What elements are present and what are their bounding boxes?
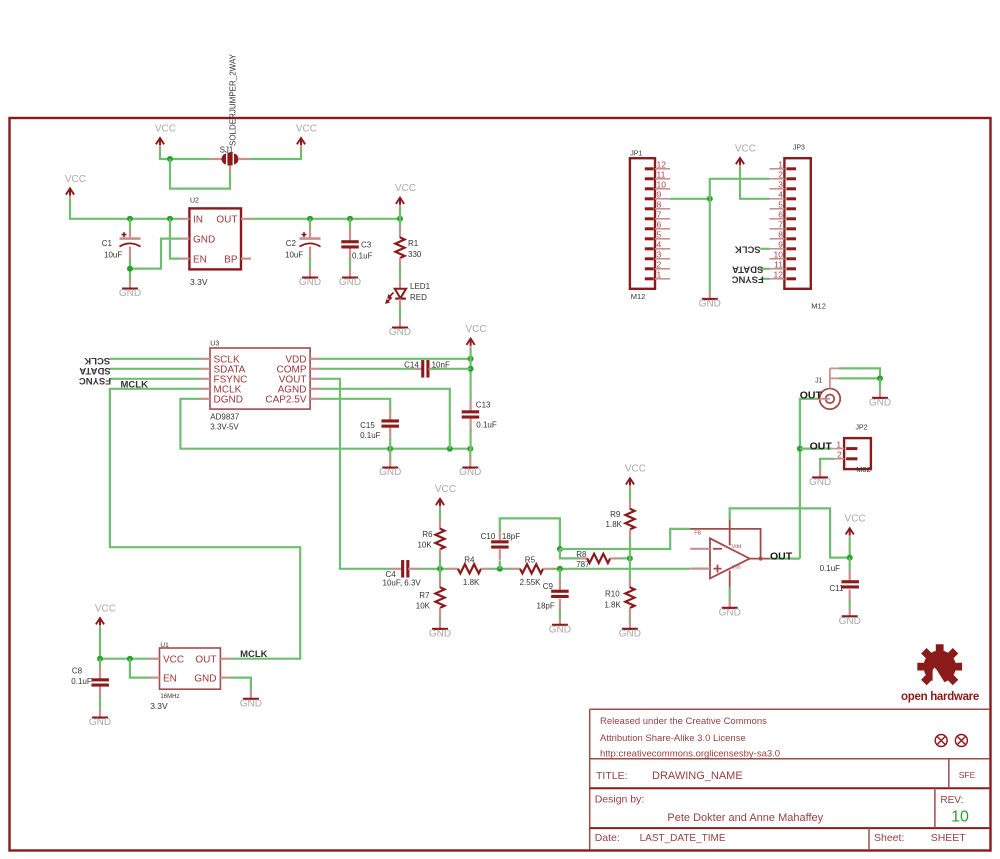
svg-text:C1: C1 bbox=[102, 239, 113, 248]
svg-text:JP1: JP1 bbox=[630, 151, 642, 158]
svg-text:VCC: VCC bbox=[845, 514, 866, 525]
date row bbox=[595, 832, 967, 844]
svg-text:GND: GND bbox=[429, 629, 451, 640]
ground symbol bbox=[389, 327, 411, 338]
capacitor C13 bbox=[462, 399, 497, 430]
svg-text:6: 6 bbox=[778, 209, 783, 219]
capacitor C4 bbox=[383, 560, 422, 587]
ground symbol bbox=[429, 629, 451, 640]
wire R5 to C9 node bbox=[553, 568, 691, 570]
connector JP3 bbox=[770, 145, 826, 311]
svg-text:VCC: VCC bbox=[435, 484, 456, 495]
wire SDATA into U3 bbox=[110, 368, 200, 370]
svg-text:VCC: VCC bbox=[395, 183, 416, 194]
wire C15 to ground rail bbox=[389, 438, 391, 460]
svg-text:4: 4 bbox=[657, 239, 662, 249]
svg-text:0.1uF: 0.1uF bbox=[476, 421, 497, 430]
wire U1 GND to ground bbox=[230, 678, 251, 691]
svg-text:3: 3 bbox=[778, 179, 783, 189]
svg-text:0.1uF: 0.1uF bbox=[820, 564, 841, 573]
junction JP1 pin9 net bbox=[707, 196, 713, 202]
svg-text:330: 330 bbox=[408, 250, 422, 259]
svg-text:7: 7 bbox=[778, 219, 783, 229]
ground symbol bbox=[240, 698, 262, 709]
svg-text:10uF, 6.3V: 10uF, 6.3V bbox=[383, 579, 422, 588]
svg-text:10: 10 bbox=[774, 249, 784, 259]
svg-text:GND: GND bbox=[389, 327, 411, 338]
svg-text:AD9837: AD9837 bbox=[210, 413, 239, 422]
wire VCC stem to supply node bbox=[849, 538, 851, 557]
svg-text:RED: RED bbox=[410, 293, 427, 302]
wire VCC to U1 rail bbox=[100, 628, 150, 659]
IC U2 voltage regulator bbox=[180, 198, 251, 288]
svg-text:R6: R6 bbox=[422, 530, 433, 539]
svg-text:5: 5 bbox=[778, 199, 783, 209]
wire VCC left to SJ1 bbox=[160, 148, 210, 159]
svg-text:SHEET: SHEET bbox=[931, 832, 967, 844]
junction C1 bottom bbox=[127, 266, 133, 272]
resistor R9 bbox=[606, 500, 635, 539]
wire C8 to ground bbox=[99, 697, 101, 710]
svg-text:7: 7 bbox=[657, 209, 662, 219]
svg-text:M12: M12 bbox=[811, 302, 826, 311]
junction R1 top bbox=[397, 216, 403, 222]
capacitor C1 bbox=[102, 229, 141, 261]
svg-text:U2: U2 bbox=[190, 198, 199, 205]
svg-text:LAST_DATE_TIME: LAST_DATE_TIME bbox=[640, 833, 726, 844]
svg-text:SCLK: SCLK bbox=[735, 243, 761, 254]
wire MCLK from U1 to U3 bbox=[110, 389, 300, 659]
svg-text:GND: GND bbox=[549, 624, 571, 635]
wire VCC stem to VDD rail bbox=[470, 349, 472, 400]
wire SCLK stub at JP3 pin9 bbox=[760, 248, 769, 250]
svg-text:R9: R9 bbox=[610, 510, 621, 519]
ground symbol bbox=[719, 608, 741, 619]
svg-text:18pF: 18pF bbox=[537, 602, 555, 611]
svg-text:VCC: VCC bbox=[163, 655, 184, 666]
svg-text:18pF: 18pF bbox=[502, 532, 520, 541]
svg-text:2: 2 bbox=[837, 450, 842, 460]
open source hardware logo bbox=[901, 644, 979, 703]
capacitor C8 bbox=[71, 659, 109, 698]
wire opamp output loop up to J1 bbox=[800, 399, 818, 559]
wire DGND down to ground rail bbox=[180, 399, 470, 449]
svg-text:C10: C10 bbox=[481, 532, 496, 541]
svg-text:C8: C8 bbox=[72, 667, 83, 676]
wire C1 bottom to ground bbox=[129, 259, 131, 281]
resistor R10 bbox=[604, 579, 634, 618]
svg-text:GND: GND bbox=[719, 608, 741, 619]
svg-text:M12: M12 bbox=[631, 292, 646, 301]
ground symbol bbox=[299, 277, 321, 288]
wire junction up to JP3 pin2 bbox=[710, 179, 770, 199]
ground symbol bbox=[699, 299, 721, 310]
svg-text:OUT: OUT bbox=[800, 390, 823, 402]
wire LED1 to ground bbox=[399, 307, 401, 320]
wire OUT to JP2 pin1 bbox=[800, 448, 832, 450]
svg-text:16MHz: 16MHz bbox=[160, 694, 179, 700]
svg-text:GND: GND bbox=[194, 674, 216, 685]
svg-text:1: 1 bbox=[836, 440, 841, 450]
junction divider node bbox=[627, 555, 633, 561]
wire C13 to ground rail bbox=[469, 429, 472, 460]
svg-text:VCC: VCC bbox=[465, 324, 486, 335]
power VCC symbol bbox=[435, 484, 456, 510]
svg-text:Attribution Share-Alike 3.0 Li: Attribution Share-Alike 3.0 License bbox=[600, 733, 746, 744]
svg-text:DRAWING_NAME: DRAWING_NAME bbox=[652, 770, 743, 782]
wire JP2 pin2 to ground bbox=[820, 459, 834, 471]
svg-text:11: 11 bbox=[657, 169, 666, 179]
connector JP2 bbox=[832, 425, 871, 474]
wire C14 to VCC line bbox=[430, 368, 471, 370]
svg-text:GND: GND bbox=[699, 299, 721, 310]
wire SJ1 right to VCC bbox=[250, 148, 301, 159]
net label OUT at opamp bbox=[770, 550, 800, 562]
junction C9 node bbox=[557, 566, 563, 572]
circle-X symbol 2 bbox=[955, 735, 967, 747]
svg-text:VCC: VCC bbox=[95, 604, 116, 615]
wire R7 to ground bbox=[439, 617, 441, 622]
IC U1 oscillator bbox=[150, 642, 230, 711]
svg-text:10K: 10K bbox=[416, 602, 431, 611]
wire opamp Vss to ground bbox=[729, 587, 731, 600]
svg-text:U3: U3 bbox=[210, 341, 219, 348]
svg-text:OUT: OUT bbox=[216, 215, 237, 226]
svg-text:0.1uF: 0.1uF bbox=[71, 677, 92, 686]
svg-text:SDATA: SDATA bbox=[732, 263, 763, 274]
wire AGND to ground rail bbox=[320, 389, 450, 449]
svg-text:R8: R8 bbox=[576, 550, 587, 559]
svg-text:1.8K: 1.8K bbox=[604, 601, 621, 610]
junction J1 shield bbox=[877, 375, 883, 381]
junction U1 EN branch bbox=[127, 656, 133, 662]
svg-text:EN: EN bbox=[163, 674, 177, 685]
solder jumper SJ1 bbox=[210, 53, 250, 173]
circle-X symbol 1 bbox=[935, 735, 947, 747]
svg-text:R5: R5 bbox=[525, 556, 536, 565]
junction ground rail at C13 bbox=[467, 446, 473, 452]
svg-text:IN: IN bbox=[193, 215, 203, 226]
svg-text:3: 3 bbox=[657, 249, 662, 259]
svg-text:9: 9 bbox=[657, 189, 662, 199]
wire C9 to ground bbox=[559, 610, 561, 617]
svg-text:Pete Dokter and Anne Mahaffey: Pete Dokter and Anne Mahaffey bbox=[667, 812, 823, 824]
svg-text:12: 12 bbox=[657, 159, 667, 169]
wire EN branch U1 bbox=[130, 659, 150, 678]
wire CAP2.5V to C15 bbox=[320, 399, 390, 411]
svg-text:SFE: SFE bbox=[959, 770, 976, 780]
ground symbol bbox=[839, 616, 861, 627]
svg-text:6: 6 bbox=[657, 219, 662, 229]
wire VDD to VCC bbox=[320, 358, 471, 360]
ground symbol bbox=[619, 629, 641, 640]
svg-text:12: 12 bbox=[774, 269, 784, 279]
svg-text:CAP2.5V: CAP2.5V bbox=[265, 394, 306, 405]
svg-text:4: 4 bbox=[778, 189, 783, 199]
capacitor C10 bbox=[481, 531, 521, 560]
junction minus node bbox=[557, 546, 563, 552]
ground symbol bbox=[89, 717, 111, 728]
svg-text:2: 2 bbox=[657, 259, 662, 269]
svg-text:FB: FB bbox=[694, 531, 701, 537]
ground symbol bbox=[549, 624, 571, 635]
wire C1 top lead bbox=[129, 219, 131, 231]
svg-text:3.3V: 3.3V bbox=[190, 277, 208, 287]
wire R9 to divider node bbox=[629, 538, 631, 558]
svg-text:10: 10 bbox=[657, 179, 667, 189]
capacitor C14 bbox=[404, 360, 450, 378]
wire JP1 pin9 to junction bbox=[670, 198, 710, 200]
ground symbol bbox=[119, 288, 141, 299]
wire VCC to R9 bbox=[629, 488, 631, 501]
svg-text:SOLDERJUMPER_2WAY: SOLDERJUMPER_2WAY bbox=[229, 53, 238, 146]
ground symbol bbox=[869, 398, 891, 409]
svg-text:8: 8 bbox=[778, 229, 783, 239]
svg-text:C9: C9 bbox=[543, 582, 554, 591]
svg-text:C15: C15 bbox=[360, 421, 375, 430]
wire VCC to U2 IN rail bbox=[70, 199, 180, 219]
power VCC symbol bbox=[65, 174, 86, 200]
junction COMP at VCC line bbox=[468, 366, 474, 372]
svg-text:10K: 10K bbox=[417, 541, 432, 550]
svg-text:11: 11 bbox=[774, 259, 783, 269]
svg-text:GND: GND bbox=[459, 467, 481, 478]
junction ground rail at C15 bbox=[387, 446, 393, 452]
svg-text:LED1: LED1 bbox=[410, 282, 431, 291]
svg-text:10uF: 10uF bbox=[285, 251, 303, 260]
ground symbol bbox=[379, 467, 401, 478]
junction SJ1 left bbox=[167, 156, 173, 162]
wire R8 to divider node bbox=[620, 557, 630, 559]
title block box bbox=[590, 709, 990, 849]
svg-text:VCC: VCC bbox=[296, 123, 317, 134]
power VCC symbol bbox=[395, 183, 416, 209]
svg-text:Released under the Creative Co: Released under the Creative Commons bbox=[600, 716, 767, 727]
svg-text:VCC: VCC bbox=[155, 123, 176, 134]
capacitor C11 bbox=[820, 558, 859, 601]
svg-text:OUT: OUT bbox=[195, 655, 216, 666]
resistor R8 bbox=[576, 550, 620, 569]
wire C4 to R4 node bbox=[419, 568, 450, 570]
wire minus node to R8 bbox=[560, 549, 581, 558]
junction R6 R7 node bbox=[437, 566, 443, 572]
svg-text:1: 1 bbox=[778, 159, 783, 169]
power VCC symbol bbox=[625, 464, 646, 490]
wire FSYNC into U3 bbox=[110, 378, 200, 380]
svg-text:0.1uF: 0.1uF bbox=[352, 252, 373, 261]
svg-text:GND: GND bbox=[839, 616, 861, 627]
svg-text:TITLE:: TITLE: bbox=[596, 770, 628, 782]
capacitor C2 bbox=[285, 219, 321, 278]
resistor R7 bbox=[416, 579, 445, 618]
junction C3 top bbox=[347, 216, 353, 222]
svg-text:10uF: 10uF bbox=[104, 251, 122, 260]
svg-text:C14: C14 bbox=[404, 361, 419, 370]
junction C8 top bbox=[97, 656, 103, 662]
power VCC symbol bbox=[845, 514, 866, 540]
svg-text:SCLK: SCLK bbox=[84, 355, 110, 366]
LED LED1 bbox=[386, 279, 430, 308]
junction opamp supply node bbox=[847, 555, 853, 561]
wire COMP to C14 bbox=[320, 368, 424, 370]
power VCC symbol bbox=[155, 123, 176, 149]
ground symbol bbox=[339, 277, 361, 288]
svg-text:GND: GND bbox=[619, 629, 641, 640]
svg-text:R1: R1 bbox=[408, 239, 419, 248]
svg-text:GND: GND bbox=[809, 477, 831, 488]
wire SCLK into U3 bbox=[110, 358, 200, 360]
junction VDD VCC bbox=[468, 356, 474, 362]
junction ground rail at AGND bbox=[447, 446, 453, 452]
wire J1 shield to ground bbox=[839, 368, 880, 378]
svg-text:JP3: JP3 bbox=[793, 145, 805, 152]
svg-text:GND: GND bbox=[299, 277, 321, 288]
svg-text:Design by:: Design by: bbox=[595, 794, 645, 806]
svg-text:GND: GND bbox=[240, 698, 262, 709]
resistor R6 bbox=[417, 520, 444, 559]
wire SJ1 bottom loop bbox=[170, 159, 230, 189]
power VCC symbol bbox=[95, 604, 116, 630]
svg-text:REV:: REV: bbox=[940, 795, 963, 806]
svg-text:3.3V: 3.3V bbox=[150, 701, 168, 711]
power VCC symbol bbox=[465, 324, 486, 350]
svg-text:http:creativecommons.orglicens: http:creativecommons.orglicensesby-sa3.0 bbox=[600, 749, 780, 760]
power VCC symbol bbox=[296, 123, 317, 149]
junction C10 node bbox=[497, 566, 503, 572]
svg-text:Vdd: Vdd bbox=[732, 544, 742, 550]
svg-text:R10: R10 bbox=[605, 590, 620, 599]
wire VCC to JP3 pin4 bbox=[740, 168, 770, 199]
svg-text:R7: R7 bbox=[419, 591, 430, 600]
wire U2 OUT rail bbox=[251, 218, 400, 220]
svg-text:VCC: VCC bbox=[625, 464, 646, 475]
svg-text:MCLK: MCLK bbox=[240, 649, 268, 660]
wire VOUT down to filter bbox=[320, 379, 391, 569]
svg-text:10: 10 bbox=[951, 809, 969, 826]
connector J1 SMA bbox=[815, 368, 840, 409]
svg-text:BP: BP bbox=[224, 255, 238, 266]
wire EN branch bbox=[170, 219, 180, 259]
svg-text:C13: C13 bbox=[476, 401, 491, 410]
svg-text:1.8K: 1.8K bbox=[606, 520, 623, 529]
license text bbox=[600, 716, 780, 760]
wire minus node to opamp bbox=[560, 529, 690, 549]
resistor R4 bbox=[448, 556, 492, 588]
svg-text:C2: C2 bbox=[286, 239, 297, 248]
capacitor C3 bbox=[341, 219, 372, 278]
wire C10 branch up bbox=[499, 561, 501, 569]
svg-text:SDATA: SDATA bbox=[79, 365, 110, 376]
ground symbol bbox=[459, 467, 481, 478]
wire divider node to R10 bbox=[629, 558, 631, 579]
wire VCC to R1 rail bbox=[399, 208, 401, 219]
svg-text:JP2: JP2 bbox=[856, 425, 868, 432]
svg-text:0.1uF: 0.1uF bbox=[360, 431, 381, 440]
svg-text:1: 1 bbox=[657, 269, 662, 279]
resistor R5 bbox=[509, 556, 554, 588]
svg-text:GND: GND bbox=[119, 288, 141, 299]
wire FSYNC stub at JP3 pin12 bbox=[760, 278, 769, 280]
IC U3 AD9837 bbox=[200, 341, 320, 432]
ground symbol bbox=[809, 477, 831, 488]
svg-text:Vss: Vss bbox=[732, 564, 741, 570]
junction C2 top bbox=[307, 216, 313, 222]
svg-text:DGND: DGND bbox=[214, 394, 243, 405]
svg-text:GND: GND bbox=[89, 717, 111, 728]
wire R4 to C10 node bbox=[491, 568, 511, 570]
svg-text:open hardware: open hardware bbox=[901, 691, 979, 703]
svg-text:GND: GND bbox=[193, 235, 215, 246]
svg-text:M02: M02 bbox=[856, 465, 871, 474]
svg-text:FSYNC: FSYNC bbox=[79, 375, 111, 386]
svg-text:8: 8 bbox=[657, 199, 662, 209]
svg-text:OUT: OUT bbox=[770, 550, 793, 562]
svg-text:EN: EN bbox=[193, 255, 207, 266]
capacitor C15 bbox=[360, 410, 399, 441]
svg-text:GND: GND bbox=[339, 277, 361, 288]
svg-text:C3: C3 bbox=[361, 241, 372, 250]
svg-text:GND: GND bbox=[869, 398, 891, 409]
title row bbox=[596, 770, 976, 782]
power VCC symbol bbox=[735, 143, 756, 169]
wire R10 to ground bbox=[629, 617, 631, 622]
wire R1 to LED1 bbox=[399, 266, 401, 281]
svg-text:Date:: Date: bbox=[595, 832, 620, 844]
wire junction down to ground bbox=[709, 199, 711, 292]
capacitor C9 bbox=[537, 579, 569, 612]
svg-text:1.8K: 1.8K bbox=[463, 578, 480, 587]
wire opamp Vdd to VCC bbox=[730, 508, 850, 557]
resistor R1 bbox=[395, 219, 421, 267]
wire C10 top to minus node bbox=[500, 518, 560, 549]
svg-text:C11: C11 bbox=[829, 584, 844, 593]
connector JP1 bbox=[630, 151, 670, 302]
svg-text:GND: GND bbox=[379, 467, 401, 478]
svg-text:VCC: VCC bbox=[735, 143, 756, 154]
svg-text:FSYNC: FSYNC bbox=[731, 273, 763, 284]
svg-text:2: 2 bbox=[778, 169, 783, 179]
svg-text:3.3V-5V: 3.3V-5V bbox=[210, 423, 239, 432]
wire C9 branch bbox=[559, 569, 561, 580]
svg-text:J1: J1 bbox=[815, 378, 823, 385]
wire C11 to ground bbox=[849, 600, 851, 609]
junction output to JP2 bbox=[797, 446, 803, 452]
wire node to R7 bbox=[439, 569, 441, 580]
wire VCC to R6 bbox=[439, 509, 441, 521]
wire SDATA stub at JP3 pin11 bbox=[760, 268, 769, 270]
svg-text:VCC: VCC bbox=[65, 174, 86, 185]
svg-text:9: 9 bbox=[778, 239, 783, 249]
op-amp U4 bbox=[690, 519, 770, 589]
wire R6 to node bbox=[439, 558, 441, 569]
svg-text:2.55K: 2.55K bbox=[520, 578, 542, 587]
wire U2 GND return bbox=[130, 239, 180, 269]
svg-text:R4: R4 bbox=[464, 556, 475, 565]
junction EN branch bbox=[167, 216, 173, 222]
svg-text:Sheet:: Sheet: bbox=[874, 832, 904, 844]
junction C1 top bbox=[127, 216, 133, 222]
svg-text:OUT: OUT bbox=[810, 440, 833, 452]
design-by row bbox=[595, 794, 969, 826]
svg-text:5: 5 bbox=[657, 229, 662, 239]
